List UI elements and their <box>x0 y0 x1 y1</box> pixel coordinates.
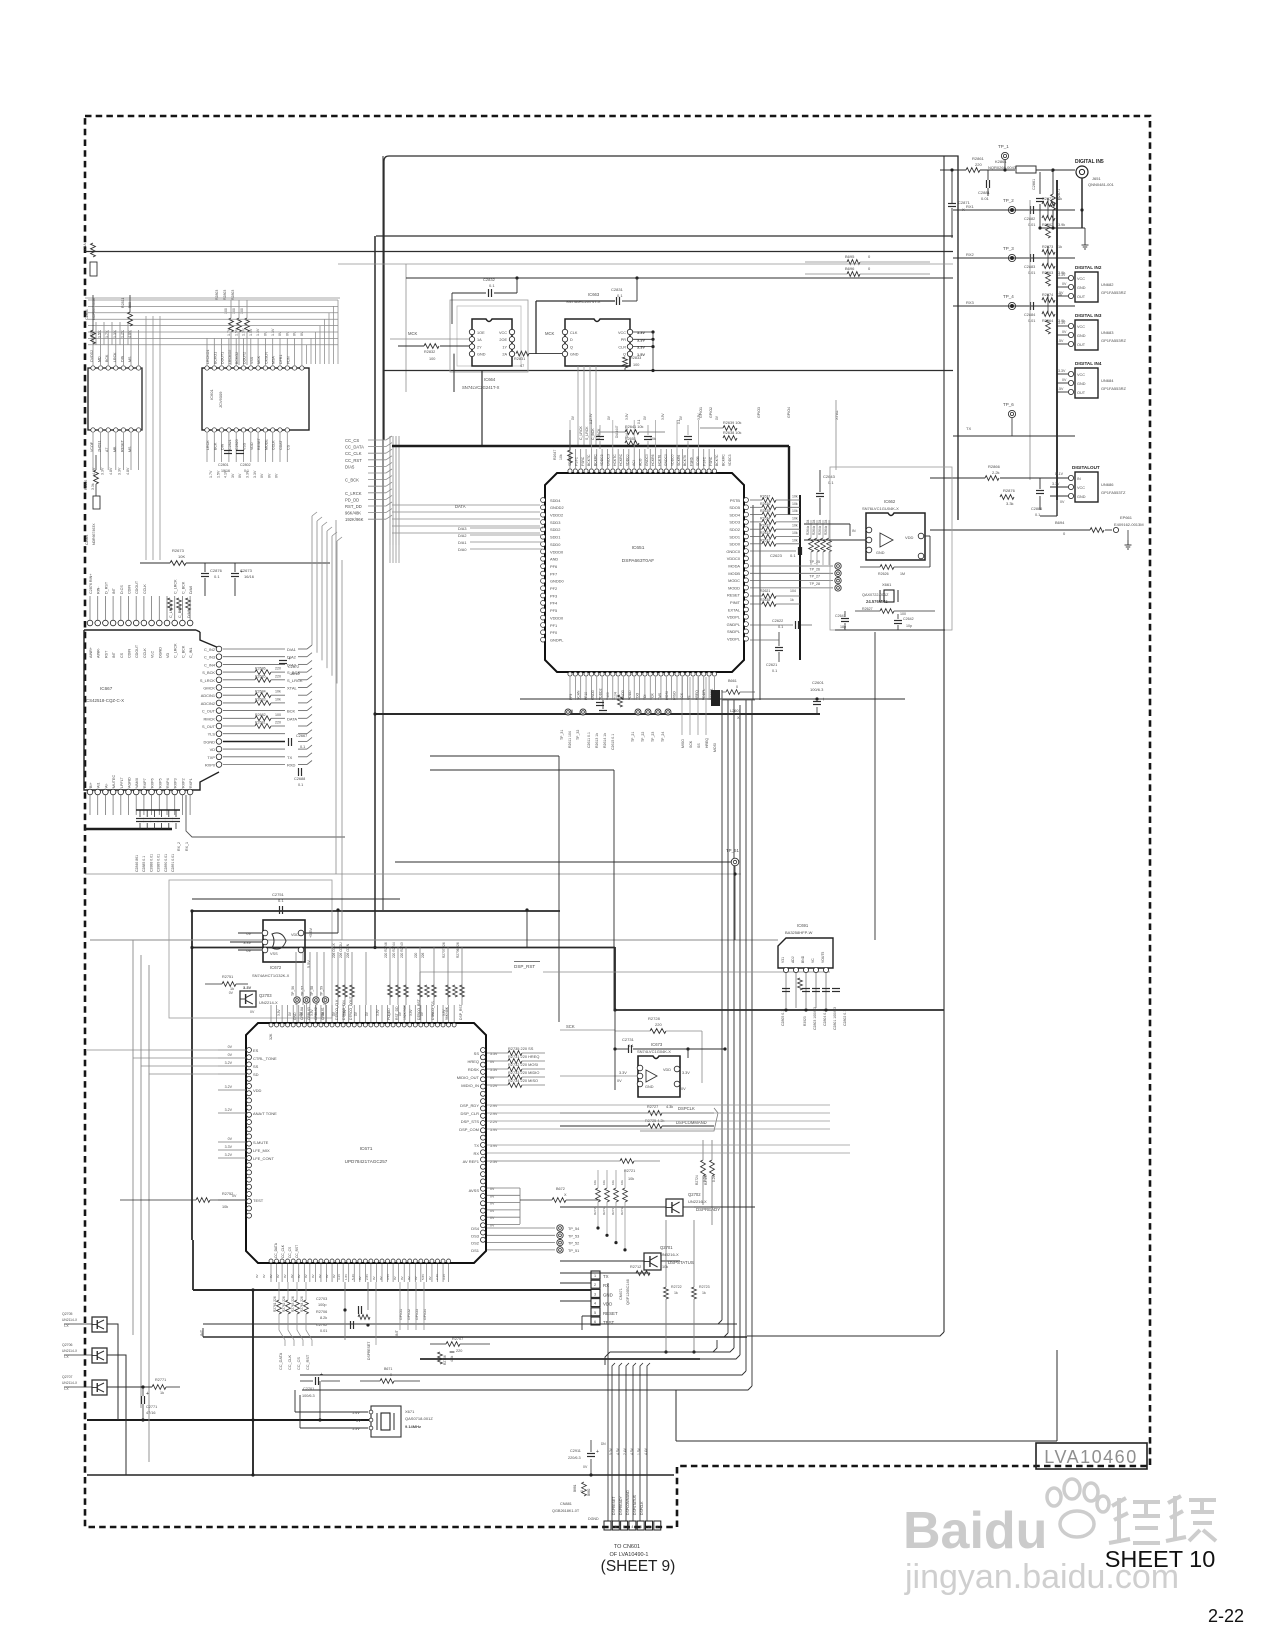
svg-text:VLC: VLC <box>151 650 155 658</box>
svg-text:GP1FA553RZ: GP1FA553RZ <box>1101 338 1126 343</box>
svg-text:3.2V: 3.2V <box>337 1274 341 1280</box>
svg-text:DSPREADY: DSPREADY <box>619 1496 623 1515</box>
svg-text:VDDC0: VDDC0 <box>727 556 741 561</box>
svg-text:VDDD0: VDDD0 <box>550 615 564 620</box>
svg-text:C2861: C2861 <box>1032 179 1036 190</box>
svg-text:RESET: RESET <box>603 1311 618 1316</box>
svg-text:226 CDOU: 226 CDOU <box>339 942 343 958</box>
svg-text:CS42518-CQZ-C-X: CS42518-CQZ-C-X <box>86 698 124 703</box>
svg-text:DSPSTATUS: DSPSTATUS <box>633 1494 637 1515</box>
svg-text:R2685: R2685 <box>255 674 266 678</box>
svg-text:OUT: OUT <box>1077 295 1086 299</box>
svg-text:4.0V: 4.0V <box>128 330 132 338</box>
svg-text:SCK: SCK <box>566 1024 575 1029</box>
svg-text:HCKRC: HCKRC <box>619 453 623 466</box>
svg-text:MODC: MODC <box>728 578 740 583</box>
svg-text:3.3V: 3.3V <box>243 985 252 990</box>
svg-text:3.2V: 3.2V <box>225 1085 233 1089</box>
svg-text:10k: 10k <box>275 697 281 701</box>
svg-text:D/A2: D/A2 <box>458 534 466 538</box>
svg-text:VDDPL: VDDPL <box>727 637 741 642</box>
svg-text:GND: GND <box>645 1085 654 1089</box>
svg-text:R2722: R2722 <box>671 1285 682 1289</box>
svg-text:0V: 0V <box>358 1276 362 1280</box>
svg-text:RESET: RESET <box>120 439 124 452</box>
svg-text:TEST: TEST <box>603 1320 615 1325</box>
svg-text:C_LRCK: C_LRCK <box>174 579 178 594</box>
svg-text:UN2216-X: UN2216-X <box>688 1199 707 1204</box>
svg-text:+: + <box>146 1391 149 1397</box>
svg-text:MISO: MISO <box>681 739 685 748</box>
svg-text:0V: 0V <box>681 1087 686 1091</box>
svg-text:TP_52: TP_52 <box>568 1242 579 1246</box>
svg-text:10k: 10k <box>792 531 798 535</box>
svg-text:PF0: PF0 <box>550 630 558 635</box>
svg-text:3.3V: 3.3V <box>682 1071 690 1075</box>
svg-text:4.5V: 4.5V <box>630 1447 634 1455</box>
svg-text:2.4V: 2.4V <box>623 1447 627 1455</box>
svg-text:GNDPL: GNDPL <box>727 622 741 627</box>
svg-text:R2686: R2686 <box>255 667 266 671</box>
svg-text:MODA: MODA <box>728 564 740 569</box>
svg-text:MIDIO_IN: MIDIO_IN <box>461 1083 479 1088</box>
svg-text:UN2114-X: UN2114-X <box>62 1318 78 1322</box>
svg-text:CRBL62: CRBL62 <box>314 1007 318 1020</box>
svg-text:DSPCLK: DSPCLK <box>640 1501 644 1515</box>
svg-text:C_BCK: C_BCK <box>591 428 595 440</box>
svg-text:EP661: EP661 <box>1120 515 1133 520</box>
svg-text:TP_31: TP_31 <box>560 730 564 740</box>
svg-text:TP_57: TP_57 <box>301 986 305 996</box>
svg-text:ACO: ACO <box>638 458 642 466</box>
svg-text:3.3V: 3.3V <box>343 1009 347 1016</box>
svg-text:2HO31: 2HO31 <box>98 441 102 452</box>
svg-text:TMS: TMS <box>658 692 662 700</box>
svg-text:SCKR6: SCKR6 <box>677 455 681 466</box>
svg-text:TDI: TDI <box>643 694 647 700</box>
svg-text:0V: 0V <box>311 1274 315 1278</box>
svg-text:0.1: 0.1 <box>278 898 284 903</box>
svg-text:TP_3: TP_3 <box>1003 246 1014 251</box>
svg-text:B882: B882 <box>587 1488 591 1496</box>
svg-text:0V: 0V <box>407 1276 411 1280</box>
svg-text:GPIO4: GPIO4 <box>423 1309 427 1320</box>
svg-text:3.3V: 3.3V <box>225 1145 233 1149</box>
svg-text:ES: ES <box>253 1048 259 1053</box>
svg-text:10k: 10k <box>620 1180 624 1185</box>
svg-text:R2638: R2638 <box>760 598 770 602</box>
svg-text:PD_DD: PD_DD <box>345 497 359 502</box>
svg-text:VDDD2: VDDD2 <box>599 688 603 700</box>
svg-text:4.3k: 4.3k <box>666 1105 673 1109</box>
svg-text:R2718: R2718 <box>620 1206 624 1215</box>
svg-text:4: 4 <box>631 1525 633 1529</box>
svg-text:C2623: C2623 <box>770 553 783 558</box>
svg-text:226 CDIN: 226 CDIN <box>346 943 350 958</box>
svg-text:D/A6: D/A6 <box>187 610 191 618</box>
svg-text:RXD: RXD <box>287 763 296 768</box>
svg-text:0.1: 0.1 <box>300 745 305 749</box>
svg-text:0: 0 <box>580 1490 584 1492</box>
svg-text:SS: SS <box>687 695 691 700</box>
svg-text:C2688: C2688 <box>294 777 305 781</box>
svg-text:BI+: BI+ <box>89 782 93 788</box>
svg-text:1Y: 1Y <box>502 345 507 349</box>
svg-text:0.1: 0.1 <box>244 469 249 473</box>
svg-text:CCLK: CCLK <box>143 584 147 594</box>
svg-text:R2627: R2627 <box>862 607 873 611</box>
svg-text:5.4V: 5.4V <box>351 1274 355 1280</box>
svg-text:VCC: VCC <box>618 331 626 335</box>
svg-text:2.2k: 2.2k <box>992 470 1000 475</box>
svg-text:VDDPL: VDDPL <box>702 689 706 700</box>
svg-text:0V: 0V <box>393 1276 397 1280</box>
svg-text:CC_CS: CC_CS <box>345 438 359 443</box>
svg-text:NDR667463X: NDR667463X <box>92 523 96 545</box>
svg-text:32K: 32K <box>269 1033 273 1040</box>
svg-text:DSP_RDY: DSP_RDY <box>460 1103 479 1108</box>
svg-text:DIGITAL IN4: DIGITAL IN4 <box>1075 361 1102 366</box>
svg-text:1.5V: 1.5V <box>216 470 220 478</box>
svg-text:C2611 0.1: C2611 0.1 <box>587 732 591 748</box>
svg-text:TX: TX <box>603 1274 609 1279</box>
svg-text:C_BCK: C_BCK <box>345 478 359 483</box>
svg-text:DSP_COM: DSP_COM <box>459 1127 479 1132</box>
svg-text:VDDD: VDDD <box>628 690 632 700</box>
svg-text:R2721: R2721 <box>624 1169 635 1173</box>
svg-text:4.8V: 4.8V <box>109 467 113 475</box>
svg-text:OF LVA10490-1: OF LVA10490-1 <box>610 1552 649 1558</box>
svg-text:C2672: C2672 <box>288 665 299 669</box>
svg-text:S_LRCK: S_LRCK <box>200 678 216 683</box>
svg-text:TCK: TCK <box>650 692 654 700</box>
svg-text:10k: 10k <box>662 1265 668 1269</box>
svg-text:VDD: VDD <box>663 1068 671 1072</box>
svg-text:RX2: RX2 <box>966 252 975 257</box>
svg-text:C2911: C2911 <box>570 1449 581 1453</box>
svg-text:RX3: RX3 <box>966 300 975 305</box>
svg-text:X661: X661 <box>882 582 892 587</box>
svg-text:R2866: R2866 <box>988 464 1001 469</box>
svg-text:0V: 0V <box>379 1276 383 1280</box>
svg-text:C2615 0.1: C2615 0.1 <box>611 734 615 750</box>
svg-text:3.3V: 3.3V <box>637 337 645 342</box>
svg-text:R2673: R2673 <box>172 548 185 553</box>
svg-text:+: + <box>320 1372 323 1378</box>
svg-text:LRCK: LRCK <box>206 440 210 450</box>
svg-text:DFR1: DFR1 <box>279 355 283 364</box>
svg-text:+: + <box>288 656 291 662</box>
svg-text:CS: CS <box>286 444 290 450</box>
svg-text:TP_32: TP_32 <box>576 730 580 740</box>
svg-text:SN74AHCT1G32K-X: SN74AHCT1G32K-X <box>252 973 290 978</box>
svg-text:MISO: MISO <box>673 691 677 700</box>
svg-text:DSPCLK: DSPCLK <box>678 1106 695 1111</box>
svg-text:AINR+: AINR+ <box>89 647 93 658</box>
svg-text:TO CN601: TO CN601 <box>614 1544 640 1550</box>
svg-text:100/6.3: 100/6.3 <box>302 1394 315 1398</box>
svg-text:SN76LVC1GU04K-X: SN76LVC1GU04K-X <box>862 506 899 511</box>
svg-text:TP_21: TP_21 <box>631 732 635 742</box>
svg-text:CC_CS: CC_CS <box>288 1246 292 1258</box>
svg-text:DSP_RST: DSP_RST <box>514 964 535 969</box>
svg-text:R264x 104: R264x 104 <box>824 519 828 535</box>
svg-text:IC691: IC691 <box>797 923 809 928</box>
svg-text:TP_4: TP_4 <box>1003 294 1014 299</box>
svg-text:0V: 0V <box>372 1276 376 1280</box>
svg-text:220 R2744: 220 R2744 <box>392 942 396 958</box>
svg-text:C2890 0.01: C2890 0.01 <box>164 854 168 872</box>
svg-text:SDD2: SDD2 <box>550 527 560 532</box>
svg-text:R2811: R2811 <box>121 298 125 308</box>
svg-text:GNDC0: GNDC0 <box>645 454 649 466</box>
svg-text:R2614 1k: R2614 1k <box>603 733 607 748</box>
svg-text:VDD: VDD <box>253 1088 262 1093</box>
svg-text:DSP_RST: DSP_RST <box>459 1004 463 1020</box>
svg-text:VD: VD <box>166 653 170 658</box>
svg-text:16/16: 16/16 <box>290 672 300 676</box>
svg-text:MCK: MCK <box>408 331 418 336</box>
svg-text:RX1: RX1 <box>966 204 975 209</box>
svg-text:D/A3: D/A3 <box>458 527 466 531</box>
svg-text:Q2705: Q2705 <box>62 1312 73 1316</box>
svg-text:PSTB: PSTB <box>730 498 741 503</box>
svg-text:R2638 10k: R2638 10k <box>723 431 741 435</box>
svg-text:CLR: CLR <box>618 345 626 349</box>
svg-text:10k: 10k <box>222 1205 228 1209</box>
svg-text:220 R2743: 220 R2743 <box>400 942 404 958</box>
svg-text:MODD: MODD <box>728 585 740 590</box>
svg-text:DGND: DGND <box>158 647 162 658</box>
svg-text:Q: Q <box>623 353 626 357</box>
svg-text:GPIO3: GPIO3 <box>757 407 761 418</box>
svg-text:DTRCO_DOUT: DTRCO_DOUT <box>349 996 353 1020</box>
svg-text:C2805 0.1: C2805 0.1 <box>781 1010 785 1026</box>
svg-text:VDDC3: VDDC3 <box>600 454 604 466</box>
svg-text:LRCKO1: LRCKO1 <box>206 350 210 364</box>
svg-text:R2761 226: R2761 226 <box>273 1296 277 1312</box>
svg-text:RXP2: RXP2 <box>181 778 185 788</box>
svg-text:0V: 0V <box>255 1274 259 1278</box>
svg-text:BCKO1: BCKO1 <box>213 352 217 364</box>
svg-text:C2642: C2642 <box>903 617 914 621</box>
svg-text:0.1: 0.1 <box>637 419 641 424</box>
svg-text:RXP0: RXP0 <box>205 763 216 768</box>
svg-text:DATA: DATA <box>287 716 297 721</box>
svg-text:0.1: 0.1 <box>772 669 777 673</box>
svg-text:DOUT1: DOUT1 <box>221 352 225 364</box>
svg-text:DVDD2: DVDD2 <box>90 350 94 362</box>
svg-text:UPD784217AGC257: UPD784217AGC257 <box>345 1159 388 1164</box>
svg-text:R2636: R2636 <box>760 502 770 506</box>
svg-text:C2731: C2731 <box>622 1037 635 1042</box>
svg-text:GND: GND <box>293 1012 297 1020</box>
svg-text:R2611 104: R2611 104 <box>568 731 572 748</box>
svg-text:3.3V: 3.3V <box>589 413 593 420</box>
svg-text:0.1: 0.1 <box>589 419 593 424</box>
svg-text:3.3V: 3.3V <box>625 413 629 420</box>
svg-text:10k: 10k <box>792 495 798 499</box>
svg-text:GND: GND <box>876 551 885 555</box>
svg-text:SDO2: SDO2 <box>729 527 740 532</box>
svg-text:TP_1: TP_1 <box>998 144 1009 149</box>
svg-text:DIGITAL IN2: DIGITAL IN2 <box>1075 265 1102 270</box>
svg-text:RMCK: RMCK <box>204 716 216 721</box>
svg-text:DSPA663T0AF: DSPA663T0AF <box>622 558 655 564</box>
svg-text:XTAL: XTAL <box>834 410 839 420</box>
svg-text:S_BCK: S_BCK <box>202 670 215 675</box>
svg-text:PF1: PF1 <box>550 623 557 628</box>
svg-text:IC671: IC671 <box>360 1146 373 1152</box>
svg-text:DS3: DS3 <box>471 1233 480 1238</box>
svg-text:R2706: R2706 <box>316 1310 327 1314</box>
svg-text:R2876: R2876 <box>1003 488 1016 493</box>
svg-text:R2833: R2833 <box>630 356 641 360</box>
svg-text:LFE_MIX: LFE_MIX <box>253 1148 270 1153</box>
svg-text:D/A447: D/A447 <box>625 427 629 438</box>
svg-text:220/6.3: 220/6.3 <box>568 1456 581 1460</box>
svg-text:TP_2: TP_2 <box>1003 198 1014 203</box>
svg-text:R264x 104: R264x 104 <box>806 519 810 535</box>
svg-text:PDN: PDN <box>286 356 290 364</box>
svg-text:C2701: C2701 <box>303 1387 314 1391</box>
svg-text:BCKT6: BCKT6 <box>683 455 687 466</box>
svg-text:OUT: OUT <box>1077 343 1086 347</box>
svg-text:C2876 RIN+: C2876 RIN+ <box>89 574 93 594</box>
svg-text:47/16: 47/16 <box>146 1411 156 1415</box>
svg-text:CLK: CLK <box>570 331 578 335</box>
svg-text:C_LRCK: C_LRCK <box>345 491 362 496</box>
svg-text:0V: 0V <box>290 1274 294 1278</box>
svg-text:GP1FA553RZ: GP1FA553RZ <box>1101 290 1126 295</box>
svg-text:3.2V: 3.2V <box>225 1108 233 1112</box>
svg-text:C_BCK: C_BCK <box>178 605 182 618</box>
svg-text:C2803 100/6.3: C2803 100/6.3 <box>813 1007 817 1030</box>
svg-text:0.1: 0.1 <box>214 574 220 579</box>
svg-text:CTRL_TONE: CTRL_TONE <box>253 1056 277 1061</box>
svg-text:R2621: R2621 <box>760 589 770 593</box>
svg-text:B696: B696 <box>845 266 855 271</box>
svg-text:R2803: R2803 <box>223 290 227 300</box>
svg-text:TP_24: TP_24 <box>661 732 665 742</box>
svg-text:GNDPL: GNDPL <box>550 637 564 642</box>
svg-text:R2631: R2631 <box>760 538 770 542</box>
svg-text:0V: 0V <box>228 1045 233 1049</box>
svg-text:VCC: VCC <box>1077 277 1085 281</box>
svg-text:3.3V: 3.3V <box>442 1009 446 1016</box>
svg-text:V31: V31 <box>781 957 785 963</box>
svg-text:GNDD0: GNDD0 <box>550 579 564 584</box>
svg-text:RXP4: RXP4 <box>166 778 170 788</box>
svg-text:0: 0 <box>390 1373 392 1377</box>
svg-text:R2736 226: R2736 226 <box>456 942 460 958</box>
svg-text:VDD: VDD <box>905 535 914 540</box>
svg-text:LVA10460: LVA10460 <box>1044 1447 1137 1467</box>
svg-text:TP_58: TP_58 <box>310 986 314 996</box>
svg-text:D/A4447: D/A4447 <box>615 425 619 438</box>
svg-text:100/6.3: 100/6.3 <box>810 687 824 692</box>
svg-text:DN: DN <box>601 1442 606 1446</box>
svg-text:BCKTC: BCKTC <box>587 454 591 466</box>
svg-text:QGB2618K1-0T: QGB2618K1-0T <box>552 1509 580 1513</box>
svg-text:226: 226 <box>421 952 425 958</box>
svg-text:+: + <box>596 1449 599 1455</box>
svg-text:D.1V: D.1V <box>1055 472 1064 476</box>
svg-text:RST: RST <box>104 650 108 658</box>
svg-text:C2771: C2771 <box>146 1405 157 1409</box>
svg-text:0V: 0V <box>583 1465 588 1469</box>
svg-text:MODB: MODB <box>728 571 740 576</box>
svg-text:0.01: 0.01 <box>1028 271 1035 275</box>
svg-text:0.1: 0.1 <box>828 480 834 485</box>
svg-text:B881: B881 <box>573 1484 577 1492</box>
svg-text:MS: MS <box>128 446 132 452</box>
svg-text:C2667: C2667 <box>296 734 307 738</box>
svg-text:(SHEET 9): (SHEET 9) <box>601 1558 676 1575</box>
svg-text:R2763 226: R2763 226 <box>291 1296 295 1312</box>
svg-text:B694: B694 <box>1055 520 1065 525</box>
svg-text:R2716: R2716 <box>602 1206 606 1215</box>
svg-text:UN682: UN682 <box>1101 282 1114 287</box>
svg-text:192K/96K: 192K/96K <box>345 517 364 522</box>
svg-text:C2876: C2876 <box>210 568 223 573</box>
svg-text:R2731 220 HREQ: R2731 220 HREQ <box>508 1054 539 1059</box>
svg-text:C2802: C2802 <box>240 463 251 467</box>
svg-text:226 CCLK: 226 CCLK <box>332 942 336 958</box>
svg-text:R2707: R2707 <box>452 1337 463 1341</box>
svg-text:D: D <box>570 338 573 342</box>
svg-text:100: 100 <box>275 713 281 717</box>
svg-text:PF7: PF7 <box>550 571 557 576</box>
svg-text:BCK: BCK <box>287 709 296 714</box>
svg-text:10/16: 10/16 <box>221 469 230 473</box>
svg-text:OUT: OUT <box>1077 391 1086 395</box>
svg-text:4.5V: 4.5V <box>616 1447 620 1455</box>
svg-text:R2861: R2861 <box>972 156 985 161</box>
svg-text:3.3V: 3.3V <box>619 1071 627 1075</box>
svg-text:QAS0718-001Z: QAS0718-001Z <box>405 1416 433 1421</box>
svg-text:C2831: C2831 <box>611 287 624 292</box>
svg-text:SN74LVC2G241T-X: SN74LVC2G241T-X <box>462 385 500 390</box>
svg-text:220: 220 <box>655 1022 662 1027</box>
svg-text:R2637: R2637 <box>760 495 770 499</box>
svg-text:1: 1 <box>656 1525 658 1529</box>
svg-text:K2861: K2861 <box>995 159 1007 164</box>
svg-text:0V: 0V <box>283 1274 287 1278</box>
svg-text:AND: AND <box>550 557 558 562</box>
svg-text:C2664: C2664 <box>85 535 89 545</box>
svg-text:GNDC0: GNDC0 <box>664 454 668 466</box>
svg-text:0V: 0V <box>400 1276 404 1280</box>
svg-text:PF4: PF4 <box>550 601 558 606</box>
svg-text:VD: VD <box>210 747 216 752</box>
svg-text:T100: T100 <box>606 692 610 700</box>
svg-text:VDD: VDD <box>250 442 254 450</box>
svg-text:E409162-0013M: E409162-0013M <box>1114 522 1144 527</box>
svg-text:S_LRCK: S_LRCK <box>287 678 303 683</box>
svg-text:GNDD2: GNDD2 <box>550 505 564 510</box>
svg-text:R2647: R2647 <box>553 450 557 460</box>
svg-text:3.3V: 3.3V <box>409 1009 413 1016</box>
svg-text:10k: 10k <box>792 509 798 513</box>
svg-text:TP_56: TP_56 <box>291 986 295 996</box>
svg-text:UN2114-X: UN2114-X <box>62 1349 78 1353</box>
svg-text:0V: 0V <box>1060 500 1065 504</box>
svg-text:3.3V: 3.3V <box>661 413 665 420</box>
svg-text:UN686: UN686 <box>1101 482 1114 487</box>
svg-text:RX_2: RX_2 <box>177 842 181 851</box>
svg-text:VDDD0: VDDD0 <box>550 549 564 554</box>
